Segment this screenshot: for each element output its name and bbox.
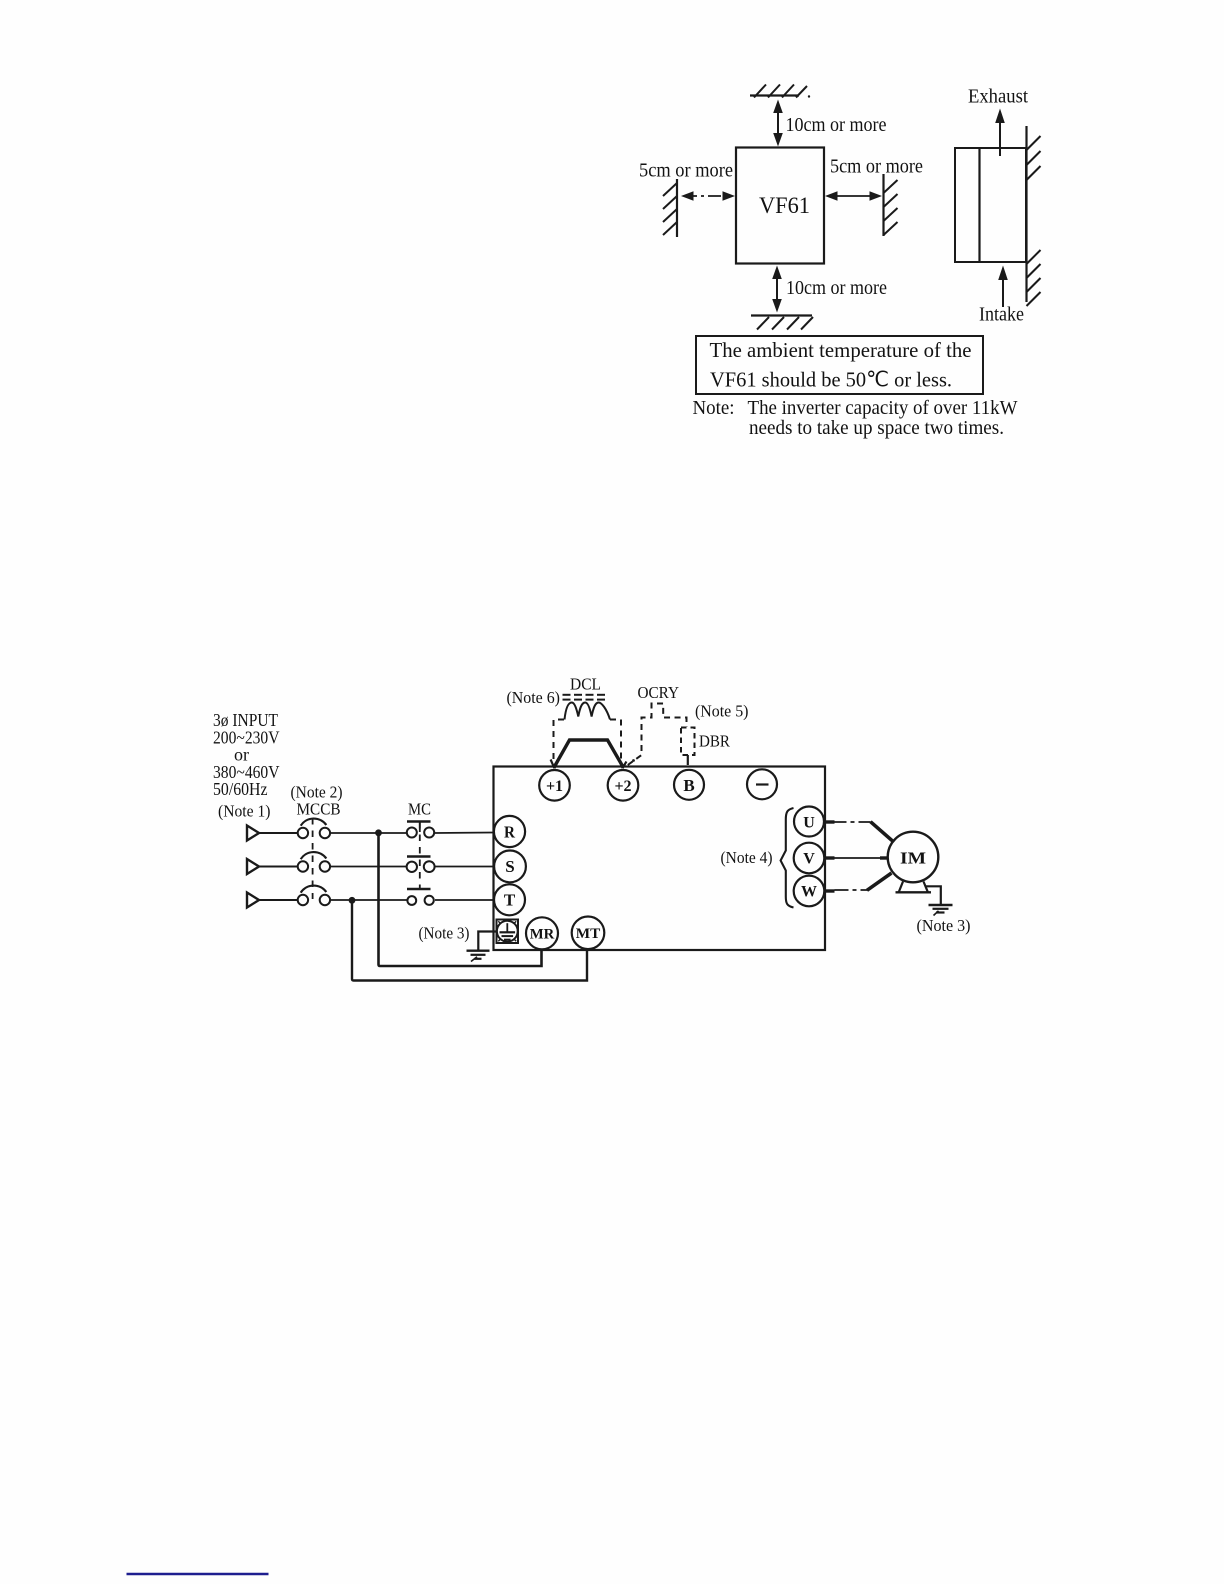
footer rule — [127, 1573, 269, 1576]
phase S input arrow — [247, 859, 259, 874]
svg-text:Exhaust: Exhaust — [968, 86, 1028, 108]
side view: wall line — [1025, 126, 1027, 302]
svg-text:needs to take up space two tim: needs to take up space two times. — [749, 418, 1004, 439]
svg-text:S: S — [505, 857, 514, 876]
svg-text:T: T — [504, 891, 516, 910]
wire W to motor — [835, 873, 892, 890]
svg-text:VF61: VF61 — [759, 193, 810, 218]
terminal S — [494, 851, 526, 883]
terminal B — [674, 770, 704, 800]
OCRY overcurrent relay (dashed option) — [628, 704, 687, 766]
wire DBR to terminal B — [687, 755, 689, 765]
MCCB pole S — [298, 852, 330, 872]
terminal T — [494, 884, 525, 915]
input source labels — [213, 710, 280, 799]
svg-text:+2: +2 — [614, 778, 631, 795]
wire T: MCCB to MC — [331, 899, 407, 901]
svg-text:10cm or more: 10cm or more — [786, 277, 887, 299]
svg-text:OCRY: OCRY — [638, 683, 680, 702]
terminal letters — [504, 776, 927, 942]
svg-text:(Note 5): (Note 5) — [695, 702, 749, 721]
node on wire T — [349, 897, 356, 904]
svg-text:DCL: DCL — [570, 675, 601, 694]
VF61 unit box — [736, 148, 824, 264]
svg-text:5cm or more: 5cm or more — [639, 160, 733, 182]
wire S: MC to terminal S — [435, 866, 494, 868]
labels of mounting diagram — [639, 86, 1028, 440]
ground terminal box — [497, 920, 519, 944]
wire R: arrow to MCCB — [259, 832, 298, 834]
wire V to motor — [835, 857, 890, 859]
MC pole S — [407, 857, 435, 873]
wire: node T to MT (control) — [352, 900, 587, 980]
phase T input arrow — [247, 893, 259, 908]
svg-text:(Note 6): (Note 6) — [507, 688, 561, 707]
svg-text:Note:: Note: — [693, 398, 735, 419]
MCCB pole R — [298, 819, 330, 839]
svg-text:V: V — [803, 851, 815, 868]
terminal MT — [572, 917, 605, 950]
svg-text:VF61 should be 50℃ or less.: VF61 should be 50℃ or less. — [710, 368, 952, 392]
left clearance arrow — [681, 191, 735, 200]
earth ground symbol (motor) — [929, 905, 953, 916]
wire U to motor — [835, 822, 894, 842]
wire: node R to MR (control) — [379, 833, 542, 966]
right clearance arrow — [825, 191, 882, 200]
side view: intake arrow — [998, 266, 1008, 308]
earth ground symbol (inverter) — [467, 951, 490, 962]
svg-text:10cm or more: 10cm or more — [786, 114, 887, 136]
left wall hatch — [663, 179, 677, 237]
motor IM — [888, 832, 939, 893]
terminal U — [794, 807, 835, 837]
side view: unit box — [955, 148, 1026, 262]
svg-text:R: R — [504, 822, 516, 841]
svg-text:DBR: DBR — [699, 732, 730, 751]
wire motor to earth — [926, 886, 941, 904]
MC linkage dashed line — [419, 822, 421, 889]
terminal R — [494, 816, 525, 847]
ceiling hatch — [750, 85, 810, 98]
wire T: MC to terminal T — [435, 899, 494, 901]
bottom clearance arrow — [772, 266, 782, 313]
DBR braking resistor (dashed option) — [681, 728, 695, 756]
jumper bar between +1 and +2 — [551, 740, 635, 768]
svg-text:(Note 1): (Note 1) — [218, 802, 271, 821]
svg-text:50/60Hz: 50/60Hz — [213, 779, 268, 799]
top clearance arrow — [773, 100, 783, 147]
phase R input arrow — [247, 826, 259, 841]
ambient temperature note box — [696, 336, 983, 394]
wire R: MC to terminal R — [435, 832, 494, 835]
svg-text:IM: IM — [900, 849, 926, 868]
floor hatch — [751, 316, 813, 330]
svg-text:W: W — [801, 884, 817, 901]
terminal MR — [526, 917, 558, 949]
side view: wall hatch bottom — [1027, 250, 1041, 306]
wire R: MCCB to MC — [331, 832, 407, 834]
DCL reactor (dashed option) — [554, 695, 622, 764]
MC pole T — [407, 889, 434, 905]
brace for note 4 — [781, 808, 794, 908]
svg-text:MC: MC — [408, 800, 431, 819]
svg-text:MCCB: MCCB — [297, 800, 341, 819]
terminal +2 — [608, 770, 639, 801]
svg-text:5cm or more: 5cm or more — [830, 156, 923, 178]
svg-text:(Note 3): (Note 3) — [419, 924, 470, 943]
terminal V — [794, 843, 835, 874]
wire ground box to earth — [478, 932, 496, 951]
svg-text:+1: +1 — [546, 778, 563, 795]
wire T: arrow to MCCB — [259, 899, 298, 901]
right wall hatch — [884, 174, 898, 236]
node on wire R — [375, 829, 382, 836]
wire S: MCCB to MC — [331, 866, 407, 868]
wire S: arrow to MCCB — [259, 866, 298, 868]
terminal W — [794, 876, 835, 907]
svg-text:The inverter capacity of over: The inverter capacity of over 11kW — [748, 398, 1019, 419]
svg-text:The ambient temperature of the: The ambient temperature of the — [710, 338, 972, 362]
svg-text:MR: MR — [530, 927, 555, 943]
MCCB pole T — [298, 886, 330, 906]
svg-text:MT: MT — [576, 926, 601, 942]
side view: exhaust arrow — [995, 109, 1005, 157]
side view: wall hatch top — [1027, 136, 1041, 180]
svg-text:(Note 4): (Note 4) — [721, 848, 773, 867]
svg-text:Intake: Intake — [979, 304, 1024, 326]
terminal minus — [747, 769, 777, 799]
svg-text:B: B — [683, 776, 694, 795]
svg-text:(Note 3): (Note 3) — [917, 916, 971, 935]
MCCB linkage dashed line — [312, 818, 314, 899]
MC pole R — [407, 822, 434, 838]
terminal +1 — [539, 770, 570, 801]
inverter main box — [494, 767, 826, 951]
svg-text:U: U — [803, 814, 815, 831]
